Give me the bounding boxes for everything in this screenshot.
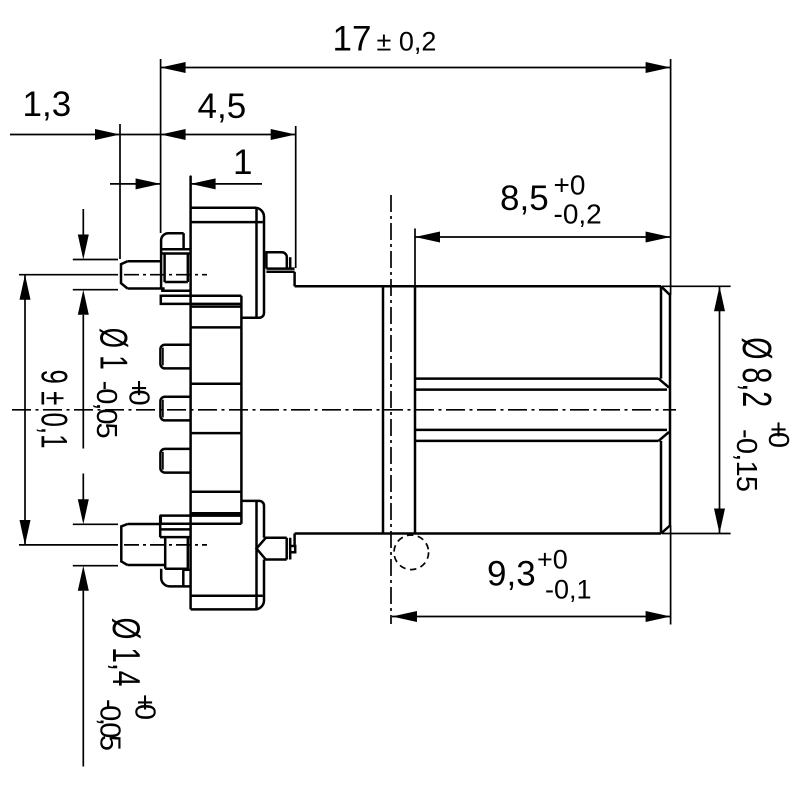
dimension 17 arrow left xyxy=(161,62,186,73)
top tab inner edge xyxy=(289,257,292,268)
svg-text:8,5: 8,5 xyxy=(500,179,549,218)
flange bottom chamfer edge vertical xyxy=(255,501,258,610)
top boss band line 2 xyxy=(161,252,190,255)
bottom boss step horizontal xyxy=(183,569,190,572)
svg-text:Ø 1,4: Ø 1,4 xyxy=(104,618,147,687)
centerline top peg xyxy=(19,274,118,276)
dimension 17 arrow right xyxy=(646,62,671,73)
flange bottom chamfer edge horizontal xyxy=(191,595,263,598)
extension line barrel end lower x670.6 xyxy=(670,526,672,625)
extension line barrel end x670.6 xyxy=(670,59,672,295)
flange bottom cap outline xyxy=(191,501,264,610)
housing front face xyxy=(189,176,192,609)
dia 1 leader arrow up and tail xyxy=(82,315,84,500)
bottom peg shaft xyxy=(128,524,166,565)
dimension 4,5 line xyxy=(120,134,296,136)
dimension 8,5 arrow right xyxy=(646,232,671,243)
web partition line 3 xyxy=(191,383,242,386)
bottom peg collar top line xyxy=(161,528,190,531)
body bottom edge flange to barrel xyxy=(295,532,661,535)
contact pin 2 xyxy=(160,345,190,369)
bottom peg chamfered tip xyxy=(121,524,127,565)
svg-text:+0: +0 xyxy=(537,545,568,575)
barrel chamfer edge vertical top xyxy=(660,286,663,378)
dia 1,4 arrow up with tail xyxy=(82,591,84,767)
extension line housing face x190.6 xyxy=(190,175,192,207)
dimension 1 arrow left xyxy=(136,178,161,189)
svg-text:1,3: 1,3 xyxy=(23,85,72,124)
top tab base plate xyxy=(266,269,294,272)
dia 1,4 arrow down xyxy=(78,499,89,524)
bottom tab nub xyxy=(290,546,295,552)
flange top chamfer edge horizontal xyxy=(191,221,263,224)
dimension 9,3 arrow right xyxy=(646,611,671,622)
web partition line 4 xyxy=(191,432,242,435)
svg-text:4,5: 4,5 xyxy=(198,87,247,126)
dia 1 extension line bottom xyxy=(73,289,118,291)
hidden circle locating peg xyxy=(394,535,429,570)
seam line between housing and barrel xyxy=(382,286,385,533)
contact pin 2 tip line xyxy=(162,348,164,366)
dia 8,2 dimension line xyxy=(719,286,721,533)
bottom boss step vertical xyxy=(182,570,185,587)
dimension 1 right tail xyxy=(191,183,262,185)
dimension 9 arrow bottom xyxy=(20,520,31,545)
svg-text:1: 1 xyxy=(233,143,252,182)
bottom hex tab xyxy=(257,538,287,560)
svg-text:Ø 1: Ø 1 xyxy=(92,328,135,370)
flange top chamfer edge vertical xyxy=(255,208,258,318)
centerline vertical datum plane xyxy=(390,195,392,624)
dimension 1,3 arrow xyxy=(95,129,120,140)
flange top cap outline xyxy=(191,208,264,318)
dia 1,4 extension line bottom xyxy=(73,565,118,567)
dimension 8,5 line xyxy=(415,236,671,238)
svg-text:9 ± 0,1: 9 ± 0,1 xyxy=(34,370,75,449)
barrel end chamfer top xyxy=(661,286,670,295)
extension line front face x161 xyxy=(160,59,162,233)
top boss bottom edge xyxy=(161,289,191,292)
dimension 9 arrow top xyxy=(20,275,31,300)
extension line thread start x415 xyxy=(414,229,416,287)
dimension 8,5 arrow left xyxy=(415,232,440,243)
svg-text:± 0,2: ± 0,2 xyxy=(377,27,437,57)
top peg inner block xyxy=(165,254,188,283)
step to mid-section bottom xyxy=(293,534,296,547)
svg-text:-0,1: -0,1 xyxy=(545,575,592,605)
web partition line 1 xyxy=(191,305,242,308)
dia 1 extension line top xyxy=(73,259,118,261)
svg-text:+0: +0 xyxy=(762,421,794,448)
dimension 1 left tail xyxy=(110,183,161,185)
contact pin 4 tip line xyxy=(162,452,164,470)
barrel right face xyxy=(669,295,672,526)
dimension 4,5 arrow left xyxy=(161,129,186,140)
web partition line 6 xyxy=(191,512,242,515)
body top edge flange to barrel xyxy=(295,285,661,288)
svg-text:9,3: 9,3 xyxy=(487,555,536,594)
extension line pin tip x120 xyxy=(119,124,121,259)
dimension 9,3 arrow left xyxy=(392,611,417,622)
dimension 17 line xyxy=(161,67,671,69)
top polarizing tab xyxy=(266,252,286,268)
svg-text:-0,05: -0,05 xyxy=(94,699,126,751)
top boss band line 1 xyxy=(161,248,190,251)
svg-text:+0: +0 xyxy=(554,170,586,201)
top peg shaft xyxy=(128,261,165,288)
svg-text:-0,2: -0,2 xyxy=(554,199,602,230)
dia 1 leader arrow down xyxy=(82,209,84,235)
barrel chamfer edge vertical bottom xyxy=(660,441,663,534)
contact pin 4 xyxy=(160,449,190,473)
bottom peg inner block xyxy=(165,537,188,569)
thread start face xyxy=(414,286,417,533)
centerline main axis xyxy=(12,409,676,411)
svg-text:Ø 8,2: Ø 8,2 xyxy=(734,337,780,407)
dimension 1,3 tail xyxy=(10,134,120,136)
dimension 9 vertical line xyxy=(24,275,26,545)
bore entry chamfer top xyxy=(659,379,670,388)
dimension 1 arrow right xyxy=(191,178,216,189)
svg-text:+0: +0 xyxy=(129,694,161,720)
contact pin 3 tip line xyxy=(162,400,164,418)
bore entry chamfer bottom xyxy=(659,432,670,441)
top boss right edge xyxy=(182,233,185,249)
centerline bottom peg xyxy=(19,544,118,546)
bottom boss outline with corner arc xyxy=(161,569,190,587)
web partition line 2 xyxy=(191,326,242,329)
bore line outer bottom xyxy=(415,440,659,443)
dia 1,4 extension line top xyxy=(73,523,118,525)
bottom peg collar face xyxy=(159,516,162,538)
svg-text:17: 17 xyxy=(333,20,372,59)
extension line barrel bottom for dia 8.2 xyxy=(662,533,731,535)
bottom wing plate xyxy=(161,516,242,524)
bore line inner bottom xyxy=(415,429,667,432)
barrel end chamfer bottom xyxy=(661,526,670,534)
dia 8,2 arrow bottom xyxy=(714,509,725,534)
svg-text:-0,05: -0,05 xyxy=(90,381,122,439)
bore line inner top xyxy=(415,388,667,391)
bore line outer top xyxy=(415,377,659,380)
extension line barrel top for dia 8.2 xyxy=(662,285,731,287)
top wing plate xyxy=(161,296,242,304)
web partition line 5 xyxy=(191,491,242,494)
bottom tab right edges xyxy=(287,538,291,560)
top peg chamfered tip xyxy=(121,261,128,288)
dimension 4,5 arrow right xyxy=(271,129,296,140)
extension line flange rear x295.7 xyxy=(295,126,297,268)
svg-text:+0: +0 xyxy=(122,380,154,406)
contact pin 3 xyxy=(160,397,190,421)
top boss stadium outline xyxy=(161,233,184,288)
step to mid-section top xyxy=(293,272,296,287)
insulator web right edge xyxy=(240,296,243,524)
bottom peg collar bottom line xyxy=(160,536,190,539)
dimension 9,3 line xyxy=(392,616,671,618)
dia 8,2 arrow top xyxy=(714,286,725,311)
svg-text:-0,15: -0,15 xyxy=(730,429,762,492)
